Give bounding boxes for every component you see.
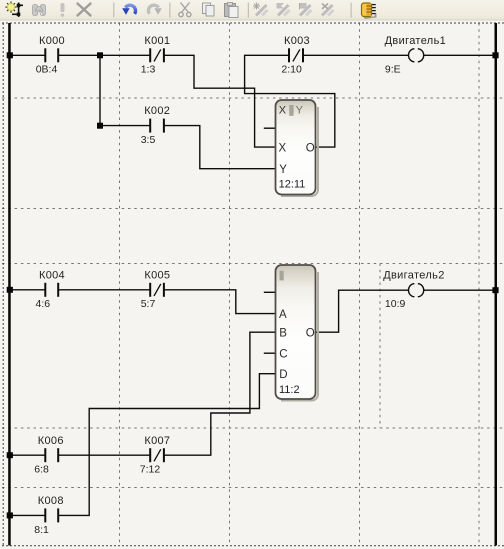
svg-text:К008: К008: [38, 495, 64, 507]
node left rail row4: [7, 287, 13, 293]
wire: K008 to D input of U2: [58, 374, 275, 516]
wire: coil2 to right rail: [424, 289, 495, 291]
right power rail: [495, 23, 498, 546]
wire: J1 to K001: [103, 54, 149, 56]
svg-text:X: X: [279, 142, 287, 154]
svg-text:B: B: [279, 327, 287, 339]
function block U1 (XOR): [276, 100, 316, 195]
toolbar icon: undo: [122, 5, 135, 15]
toolbar separator: [169, 3, 171, 18]
svg-text:4:6: 4:6: [36, 298, 51, 310]
svg-text:Двигатель2: Двигатель2: [383, 269, 445, 281]
svg-text:11:2: 11:2: [279, 384, 300, 396]
contact K000: [45, 48, 58, 62]
coil Двигатель2: [409, 284, 424, 297]
contact K007 (NC): [150, 448, 164, 462]
U2 title cursor: [280, 271, 284, 281]
svg-text:12:11: 12:11: [279, 179, 306, 191]
svg-text:5:7: 5:7: [141, 298, 156, 310]
toolbar icon: cut (disabled scissors): [179, 3, 191, 17]
contact K005 (NC): [150, 283, 164, 297]
svg-text:3:5: 3:5: [141, 134, 156, 146]
contact K001 (NC): [150, 48, 164, 62]
toolbar icon: insert tool 2 (disabled): [277, 3, 290, 16]
contact K003 (NC): [289, 48, 303, 62]
toolbar icon: insert tool 3 (disabled): [299, 3, 312, 16]
contact K004: [45, 283, 58, 297]
svg-text:К006: К006: [38, 435, 64, 447]
wire: U2 output O to coil row: [316, 290, 408, 332]
wire: K001 to X input of U1: [164, 55, 275, 147]
toolbar icon: insert tool 4 (disabled): [322, 4, 334, 16]
toolbar icon: copy (disabled): [203, 3, 215, 16]
svg-text:8:1: 8:1: [34, 524, 49, 536]
wire: K000 to node J1: [58, 54, 97, 56]
wire: J2 to K002: [103, 125, 149, 127]
svg-text:O: O: [306, 327, 315, 339]
svg-text:К002: К002: [144, 105, 170, 117]
svg-text:D: D: [279, 369, 287, 381]
wire: branch J1 down: [99, 55, 101, 124]
toolbar icon: device chip: [362, 3, 377, 19]
wire: K002 to Y input of U1: [164, 126, 275, 169]
svg-text:Двигатель1: Двигатель1: [385, 35, 447, 47]
function block U2 shadow: [281, 272, 318, 401]
wire: coil to right rail: [424, 54, 495, 56]
toolbar icon: find (disabled binoculars): [33, 5, 46, 16]
svg-text:2:10: 2:10: [281, 64, 302, 76]
wire: K003 to coil: [303, 54, 408, 56]
svg-text:10:9: 10:9: [385, 298, 406, 310]
contact K006: [45, 448, 58, 462]
svg-text:9:Е: 9:Е: [385, 64, 401, 76]
U2 pin stub C (unconnected): [264, 352, 275, 354]
svg-text:O: O: [306, 142, 315, 154]
svg-text:C: C: [279, 348, 287, 360]
wire: rail to K008: [11, 514, 45, 516]
toolbar separator: [247, 3, 249, 18]
svg-text:6:8: 6:8: [34, 464, 49, 476]
toolbar separator: [113, 3, 115, 18]
toolbar icon: new network: [5, 1, 23, 17]
node J2: [97, 123, 103, 129]
wire: U1 output O up to K003: [245, 55, 335, 147]
wire: rail to K000: [11, 54, 45, 56]
wire: K006 to K007: [58, 454, 149, 456]
wire: rail to K004: [11, 289, 45, 291]
left power rail: [8, 23, 11, 546]
svg-text:К005: К005: [144, 269, 170, 281]
svg-text:7:12: 7:12: [140, 464, 161, 476]
U1 unconnected pin stub: [264, 127, 275, 129]
contact K002: [150, 119, 164, 133]
toolbar icon: delete X (disabled): [78, 4, 91, 16]
node left rail row6: [7, 452, 13, 458]
svg-text:К007: К007: [144, 435, 170, 447]
node right rail row1: [492, 52, 498, 58]
svg-text:К001: К001: [144, 35, 170, 47]
node left rail row1: [7, 52, 13, 58]
svg-text:X: X: [279, 105, 287, 117]
toolbar icon: check (disabled exclamation): [61, 3, 65, 17]
toolbar icon: paste (disabled): [225, 3, 239, 18]
svg-text:A: A: [279, 309, 287, 321]
wire: K005 to A input of U2: [164, 290, 275, 314]
node J1: [97, 52, 103, 58]
wire: rail to K006: [11, 454, 45, 456]
function block U1 shadow: [281, 107, 318, 196]
node right rail row4: [492, 287, 498, 293]
toolbar icon: insert tool 1 (disabled wand): [253, 3, 268, 16]
toolbar: [0, 0, 504, 20]
svg-text:0В:4: 0В:4: [36, 64, 58, 76]
contact K008: [45, 508, 58, 522]
svg-text:1:3: 1:3: [141, 64, 156, 76]
svg-text:Y: Y: [296, 105, 304, 117]
U2 unconnected pin stub top: [264, 291, 275, 293]
toolbar icon: redo (disabled): [148, 5, 161, 15]
coil Двигатель1: [409, 49, 424, 62]
svg-text:Y: Y: [279, 164, 287, 176]
node left rail row7: [7, 512, 13, 518]
function block U2: [276, 265, 316, 399]
svg-text:К004: К004: [39, 269, 65, 281]
toolbar separator: [350, 3, 352, 18]
svg-text:К000: К000: [39, 35, 65, 47]
wire: K004 to K005: [58, 289, 149, 291]
wire: K007 to B input of U2: [164, 332, 275, 455]
svg-text:К003: К003: [284, 35, 310, 47]
